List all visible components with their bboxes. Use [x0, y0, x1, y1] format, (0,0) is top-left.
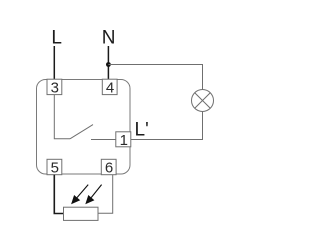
terminal 3 box — [47, 79, 62, 94]
svg-text:5: 5 — [51, 160, 59, 177]
terminal 6 box — [101, 159, 116, 174]
light arrow 1 — [71, 185, 88, 205]
terminal 1 box — [116, 132, 131, 147]
wire junction to lamp (top horizontal) — [108, 64, 203, 66]
junction dot on N wire — [106, 62, 111, 67]
svg-text:N: N — [102, 28, 116, 49]
wire N drop to terminal 4 — [107, 46, 109, 80]
photoresistor R1 body — [64, 207, 99, 220]
wire terminal 5 to photoresistor (black) — [54, 175, 63, 214]
svg-text:4: 4 — [106, 80, 114, 97]
switch S1 blade — [70, 125, 93, 139]
wire switch contact to terminal 1 — [91, 139, 116, 141]
svg-text:1: 1 — [120, 132, 128, 149]
twilight switch body U1 — [37, 80, 131, 175]
wire lamp top vertical — [202, 65, 204, 90]
light arrow 2 — [85, 185, 101, 205]
wire lamp bottom vertical — [202, 112, 204, 140]
lamp E1 cross stroke 2 — [195, 93, 211, 109]
wire L drop to terminal 3 — [53, 46, 55, 80]
wire lamp to terminal 1 (bottom horizontal) — [131, 139, 203, 141]
svg-text:L': L' — [135, 120, 149, 141]
svg-text:6: 6 — [105, 160, 113, 177]
terminal 4 box — [102, 79, 117, 94]
wire terminal 6 to photoresistor — [98, 175, 113, 214]
wire terminal 3 to switch contact — [54, 95, 70, 139]
svg-text:3: 3 — [51, 80, 59, 97]
lamp E1 circle — [192, 90, 214, 112]
svg-text:L: L — [51, 28, 62, 49]
lamp E1 cross stroke 1 — [195, 93, 211, 109]
terminal 5 box — [47, 159, 62, 174]
